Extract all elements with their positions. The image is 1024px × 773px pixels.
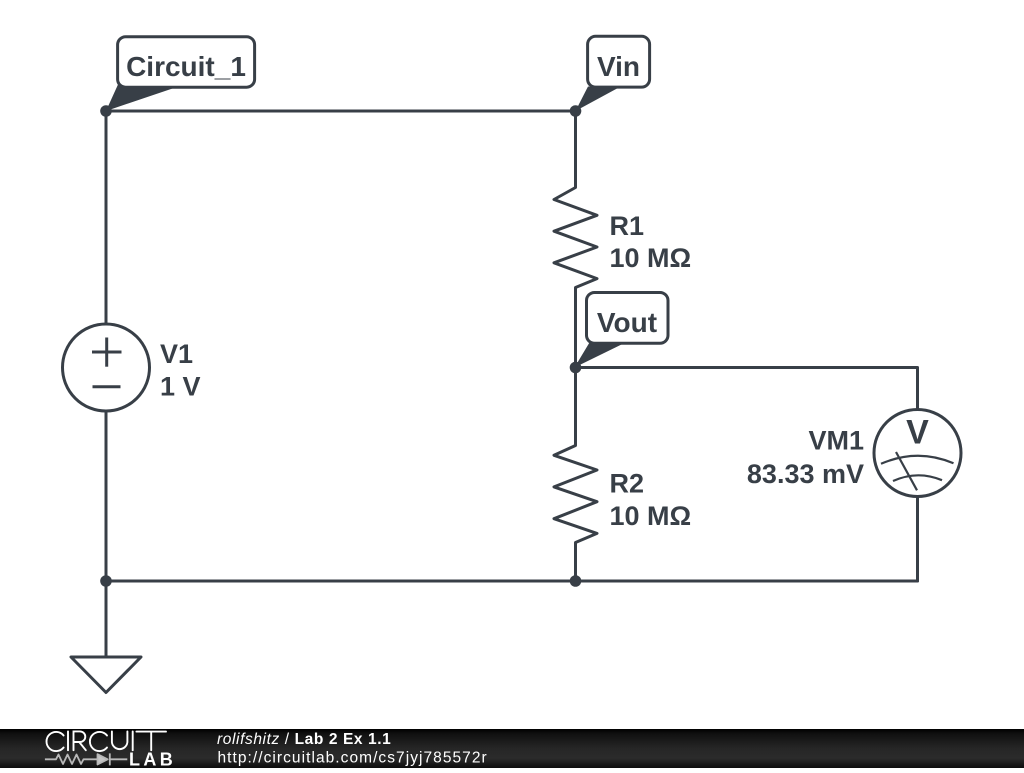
- wire voltmeter bottom lead: [916, 497, 919, 582]
- wire ground stub: [105, 581, 108, 657]
- svg-text:V1: V1: [160, 339, 193, 369]
- wire top (node A to Vin): [106, 110, 576, 113]
- svg-text:http://circuitlab.com/cs7jyj78: http://circuitlab.com/cs7jyj785572r: [218, 750, 488, 767]
- CircuitLab logo wordmark CIRCUIT: [47, 731, 166, 751]
- label R2 value 10 MΩ: [610, 469, 692, 532]
- svg-text:1 V: 1 V: [160, 372, 201, 402]
- node bottom-mid: [570, 575, 582, 587]
- wire left lower (V1 bottom to ground node): [105, 411, 108, 581]
- label V1 value 1 V: [160, 339, 201, 402]
- net flag Circuit_1: [106, 37, 255, 111]
- net flag Vin: [576, 36, 650, 111]
- wire Vout to voltmeter top: [576, 368, 918, 410]
- node Vout: [570, 362, 582, 374]
- node A (top-left junction): [100, 105, 112, 117]
- wire bottom (ground node to voltmeter bottom): [106, 580, 918, 583]
- svg-text:10 MΩ: 10 MΩ: [610, 243, 692, 273]
- label R1 value 10 MΩ: [610, 211, 692, 273]
- svg-text:83.33 mV: 83.33 mV: [747, 459, 864, 489]
- svg-text:rolifshitz / Lab 2 Ex 1.1: rolifshitz / Lab 2 Ex 1.1: [217, 731, 391, 748]
- CircuitLab logo resistor-diode line: [45, 753, 127, 765]
- wire left upper (node A to V1 top): [105, 111, 108, 324]
- resistor R2: [554, 368, 597, 582]
- voltmeter VM1: [874, 410, 961, 497]
- net flag Vout: [575, 293, 669, 368]
- node Vin: [570, 105, 582, 117]
- svg-text:Vout: Vout: [597, 307, 657, 338]
- voltage source V1: [63, 324, 150, 411]
- svg-text:R2: R2: [610, 469, 645, 499]
- resistor R1: [554, 111, 597, 368]
- svg-text:Vin: Vin: [597, 51, 640, 82]
- svg-text:LAB: LAB: [129, 750, 176, 769]
- svg-text:Circuit_1: Circuit_1: [126, 51, 246, 82]
- svg-text:VM1: VM1: [808, 426, 864, 456]
- ground: [71, 657, 141, 693]
- svg-text:10 MΩ: 10 MΩ: [610, 501, 692, 531]
- node ground-left: [100, 575, 112, 587]
- label VM1 value 83.33 mV: [747, 426, 864, 490]
- svg-text:R1: R1: [610, 211, 645, 241]
- svg-text:V: V: [906, 414, 929, 452]
- footer bar: [0, 729, 1024, 768]
